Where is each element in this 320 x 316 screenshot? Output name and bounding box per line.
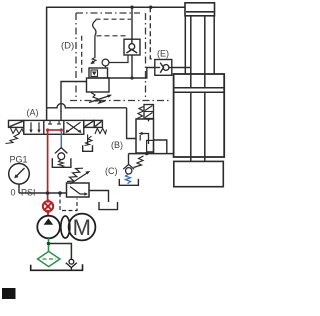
node J4	[145, 152, 148, 155]
cylinder CYL1 top bar	[185, 3, 215, 16]
relief valve RV1 outlet to tank	[89, 191, 109, 203]
wire E output to cylinder rod side	[172, 67, 191, 69]
svg-text:PG1: PG1	[10, 155, 28, 165]
svg-text:(B): (B)	[111, 140, 123, 150]
valve A box3 crossed arrows	[67, 122, 81, 132]
wire port A branch with hop over	[47, 104, 127, 108]
svg-text:(A): (A)	[27, 108, 39, 118]
black mark bottom-left	[2, 288, 16, 299]
valve A left end springs	[11, 128, 24, 134]
valve A box2 blocked ports	[48, 121, 61, 124]
cylinder CYL1 upper columns	[185, 16, 214, 88]
svg-text:(D): (D)	[61, 41, 74, 52]
relief valve RV1 adjust arrow	[70, 173, 88, 184]
wire green suction line	[48, 238, 50, 251]
relief valve RV1 spring	[67, 168, 83, 181]
valve D spring below with adjust arrow	[91, 93, 105, 104]
valve A box1 parallel arrows	[31, 122, 39, 131]
gauge PG1	[9, 164, 30, 185]
cylinder CYL1 barrel	[174, 74, 225, 157]
wire main pressure line at pump outlet	[19, 192, 67, 194]
wire blue tank line below valve A	[60, 130, 62, 147]
valve B spring to check C	[134, 156, 144, 168]
enclosure D boundary (dash-dot)	[70, 13, 171, 101]
valve B counterbalance body	[136, 119, 154, 153]
valve B right port	[154, 140, 167, 154]
check valve C	[128, 154, 130, 165]
wire from pilot curve down	[94, 36, 96, 57]
node J1 on top line	[130, 6, 133, 9]
cylinder CYL1 platen	[174, 161, 224, 186]
wire rod end line to cylinder	[129, 153, 174, 155]
valve B spring top left	[137, 107, 144, 119]
valve D orifice circle and arrow	[102, 59, 109, 66]
valve A directional control valve body	[9, 120, 103, 134]
node J6	[58, 191, 62, 195]
relief valve RV1 pilot dashed	[60, 193, 77, 211]
svg-text:PSI: PSI	[21, 188, 36, 198]
valve D pilot section dashed lines	[82, 19, 131, 74]
valve D pilot S-curve	[93, 20, 97, 36]
wire pilot dashed from J2 down to valve E	[150, 7, 154, 59]
cylinder CYL1 rod	[191, 92, 205, 161]
svg-text:0: 0	[11, 188, 16, 198]
node J3	[130, 76, 133, 79]
gauge stem	[18, 184, 20, 193]
motor M1	[69, 214, 96, 241]
svg-text:(C): (C)	[105, 166, 118, 176]
valve B inner sub box	[147, 140, 154, 151]
wire branch to bypass check	[49, 244, 72, 260]
valve B internal arrow	[141, 134, 149, 145]
valve A right solenoid half-boxes	[84, 120, 94, 127]
node J7	[47, 242, 51, 246]
svg-text:M: M	[73, 215, 91, 240]
tank T1 under check	[52, 158, 71, 167]
wire top supply line from valve A to cylinder	[47, 7, 185, 120]
valve A left solenoid half-box	[9, 120, 24, 127]
wire red line to pump	[47, 212, 49, 216]
check valve in box (D)	[124, 39, 140, 55]
svg-text:(E): (E)	[157, 49, 169, 59]
coupling ellipse	[61, 216, 70, 238]
tank T4 relief outlet	[99, 202, 118, 210]
valve D reducing valve body	[87, 68, 110, 92]
wire red pressure line from valve A to shutoff	[47, 130, 49, 202]
valve A right end springs	[95, 128, 107, 134]
filter F1 green diamond	[38, 251, 60, 266]
check valve below valve A	[55, 148, 67, 160]
pump P1	[37, 216, 60, 239]
tank T3 under check C	[119, 179, 138, 185]
wire D box left port to valve A port B	[61, 82, 87, 105]
valve B pilot box top right	[144, 105, 154, 119]
bypass check valve	[69, 259, 74, 264]
wire vertical through D check box	[131, 7, 133, 39]
wire red P gallery in valve A	[48, 129, 62, 131]
valve D small spring left of orifice	[92, 57, 96, 62]
valve E check valve box	[155, 60, 172, 76]
wire D output to valve E with corner	[108, 68, 155, 79]
spring below check into tank	[59, 160, 64, 168]
cylinder CYL1 piston	[174, 88, 224, 92]
node J2 on top line	[149, 6, 152, 9]
node J5 red tap	[46, 191, 50, 195]
check valve C blue spring	[126, 174, 131, 184]
relief valve RV1 body	[67, 183, 90, 197]
wire branch down to valve B	[127, 108, 136, 139]
tank T5 main reservoir	[31, 264, 83, 270]
tank T2 valve A drain	[87, 134, 89, 145]
shutoff valve red circle-X	[43, 201, 53, 211]
valve D small solenoid square with triangle	[91, 70, 98, 77]
relief valve RV1 internal arrow	[70, 187, 86, 195]
